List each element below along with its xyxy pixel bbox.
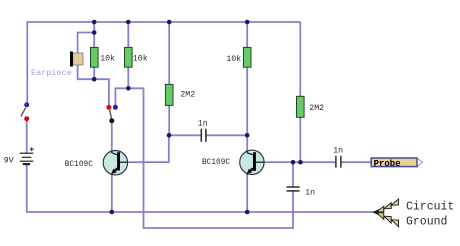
svg-text:10k: 10k [100, 53, 115, 63]
svg-text:1n: 1n [198, 119, 208, 128]
wire node A to earpiece top [78, 33, 95, 54]
svg-text:Probe: Probe [374, 159, 401, 169]
wire capacitor C1 to node E [206, 134, 247, 136]
capacitor C1 1n [201, 129, 206, 142]
svg-text:1n: 1n [305, 188, 315, 197]
svg-text:BC109C: BC109C [65, 161, 93, 169]
wire top rail to resistor R2 [127, 22, 129, 48]
junction node C [126, 86, 131, 91]
wire earpiece bottom to node B [78, 65, 95, 80]
junction node D [167, 133, 172, 138]
junction node F [298, 160, 303, 165]
svg-text:BC109C: BC109C [202, 159, 230, 167]
wire top rail to resistor R4 [246, 22, 248, 48]
wire node G to capacitor C2 top [292, 162, 294, 187]
svg-text:Earpiece: Earpiece [31, 68, 72, 78]
wire bottom ground rail [27, 211, 376, 213]
wire node A to resistor R1 [93, 33, 95, 49]
wire Q1 base to node D riser [127, 135, 169, 162]
wire left rail [26, 21, 28, 103]
wire resistor R2 to node C [127, 67, 129, 89]
earpiece LS1 [70, 52, 83, 67]
junction Q2 emitter / bottom rail [245, 210, 250, 215]
resistor R5 2M2 [297, 96, 305, 117]
resistor R4 10k [243, 47, 251, 67]
junction node B [92, 77, 97, 82]
wire top rail to node A [93, 22, 95, 33]
junction top rail / R2 branch [126, 20, 131, 25]
wire switch S2 common to Q1 collector [111, 123, 113, 151]
svg-text:2M2: 2M2 [180, 91, 195, 100]
junction dots on top rail [92, 20, 303, 215]
capacitor C3 1n [336, 156, 341, 168]
wire node C feedback to capacitor C2 bottom [128, 88, 293, 228]
svg-text:Ground: Ground [406, 215, 447, 228]
wire resistor R4 to node E [246, 67, 248, 136]
wire Q2 base to capacitor C3 [263, 161, 335, 163]
wire Q2 emitter to bottom rail [246, 174, 248, 212]
wire top rail [27, 21, 300, 23]
resistor R1 10k [91, 47, 99, 67]
svg-text:Circuit: Circuit [406, 201, 454, 214]
wire resistor R1 to node B [93, 67, 95, 80]
wire capacitor C3 to probe [342, 161, 372, 163]
battery B1 9V [20, 147, 34, 164]
wire top rail corner to resistor R5 [299, 22, 301, 97]
svg-text:9V: 9V [4, 156, 14, 165]
wire top rail to resistor R3 [168, 22, 170, 85]
transistor Q2 BC109C [240, 150, 264, 175]
wire Q1 emitter to bottom rail [111, 174, 113, 212]
junction top rail / R4 branch [245, 20, 250, 25]
resistor R2 10k [125, 47, 133, 67]
wire battery to bottom rail [26, 164, 28, 213]
svg-text:1n: 1n [333, 147, 343, 156]
wire node C to switch S2 blue pole [115, 88, 128, 105]
wire node E to Q2 collector [246, 135, 248, 151]
wire switch S1 to battery [26, 121, 28, 154]
junction node E [245, 133, 250, 138]
probe P1 [371, 158, 422, 169]
ground clip (crocodile clip symbol) [373, 199, 399, 227]
wire resistor R5 to node F [299, 117, 301, 162]
resistor R3 2M2 [165, 84, 173, 105]
junction Q1 emitter / bottom rail [110, 210, 115, 215]
switch S2 (selector) [106, 105, 118, 123]
svg-text:2M2: 2M2 [309, 104, 324, 113]
svg-text:10k: 10k [226, 54, 241, 64]
switch S1 (on/off, open) [21, 102, 29, 121]
capacitor C2 1n [287, 187, 300, 191]
svg-text:10k: 10k [133, 53, 148, 63]
wire resistor R3 to node D [168, 105, 170, 135]
wire node B to switch S2 red pole [94, 79, 109, 105]
junction node A [92, 30, 97, 35]
junction top rail / R1 branch [92, 20, 97, 25]
junction node G [291, 160, 296, 165]
wire node D to capacitor C1 [169, 134, 201, 136]
transistor Q1 BC109C [103, 151, 127, 175]
junction top rail / R3 branch [167, 20, 172, 25]
